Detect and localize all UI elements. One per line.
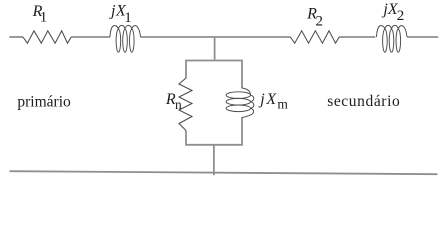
svg-text:2: 2	[397, 8, 405, 24]
svg-text:n: n	[175, 97, 182, 112]
svg-text:secundário: secundário	[327, 93, 400, 110]
svg-text:1: 1	[40, 10, 48, 26]
svg-text:primário: primário	[17, 94, 71, 111]
svg-text:1: 1	[124, 10, 132, 26]
svg-text:2: 2	[316, 14, 324, 30]
svg-text:m: m	[277, 96, 288, 111]
svg-text:jX: jX	[258, 91, 278, 108]
